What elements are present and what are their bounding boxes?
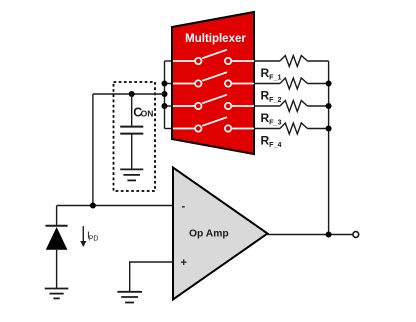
switch S3 xyxy=(173,95,254,110)
node dot row4 right xyxy=(326,126,332,132)
wire resistor row1 xyxy=(254,60,280,62)
dashed box around CON xyxy=(114,82,156,191)
svg-text:ON: ON xyxy=(141,109,154,119)
wire output xyxy=(268,234,353,236)
wire riser xyxy=(92,94,94,206)
current arrow IPD xyxy=(82,226,84,242)
wire row1 left stub (bus to mux) xyxy=(165,60,174,62)
node dot row3 right xyxy=(326,103,332,109)
node dot row2 right xyxy=(326,81,332,87)
right bus wire xyxy=(328,61,330,235)
svg-text:Op Amp: Op Amp xyxy=(189,229,229,240)
node dot row2 left xyxy=(162,81,168,87)
wire resistor row2 xyxy=(254,83,280,85)
wire row3 left stub xyxy=(165,105,174,107)
node dot riser junction xyxy=(90,203,96,209)
ground (op-amp +) xyxy=(117,292,142,303)
wire row4 left stub xyxy=(165,128,174,130)
capacitor CON xyxy=(131,94,133,127)
left bus wire xyxy=(164,61,166,129)
wire inverting input xyxy=(57,205,173,207)
ground (capacitor) xyxy=(120,169,143,180)
node dot output xyxy=(326,232,332,238)
switch S4 xyxy=(173,117,254,132)
resistor RF_4 xyxy=(280,123,308,134)
wire row2 to bus xyxy=(308,83,329,85)
photodiode D1 xyxy=(56,206,58,226)
op-amp U2 xyxy=(173,168,268,300)
switch S1 xyxy=(173,50,254,64)
wire feedback horizontal xyxy=(93,93,165,95)
node dot row3 left xyxy=(162,103,168,109)
wire non-inverting input xyxy=(130,262,173,292)
svg-text:Multiplexer: Multiplexer xyxy=(185,33,246,45)
svg-text:+: + xyxy=(181,257,187,269)
wire row4 to bus xyxy=(308,128,329,130)
switch S2 xyxy=(173,72,254,87)
multiplexer U1 body xyxy=(172,12,254,154)
wire resistor row4 xyxy=(254,128,280,130)
wire row2 left stub xyxy=(165,83,174,85)
ground (photodiode) xyxy=(45,289,69,299)
wire row3 to bus xyxy=(308,105,329,107)
svg-text:-: - xyxy=(182,201,186,213)
resistor RF_2 xyxy=(280,78,308,89)
resistor RF_3 xyxy=(280,101,308,112)
wire resistor row3 xyxy=(254,105,280,107)
wire row1 to bus xyxy=(308,60,329,62)
node dot cap tap xyxy=(129,91,135,97)
resistor RF_1 xyxy=(280,56,308,67)
node dot feedback join left xyxy=(162,91,168,97)
output terminal xyxy=(353,232,359,238)
svg-text:PD: PD xyxy=(89,236,99,243)
